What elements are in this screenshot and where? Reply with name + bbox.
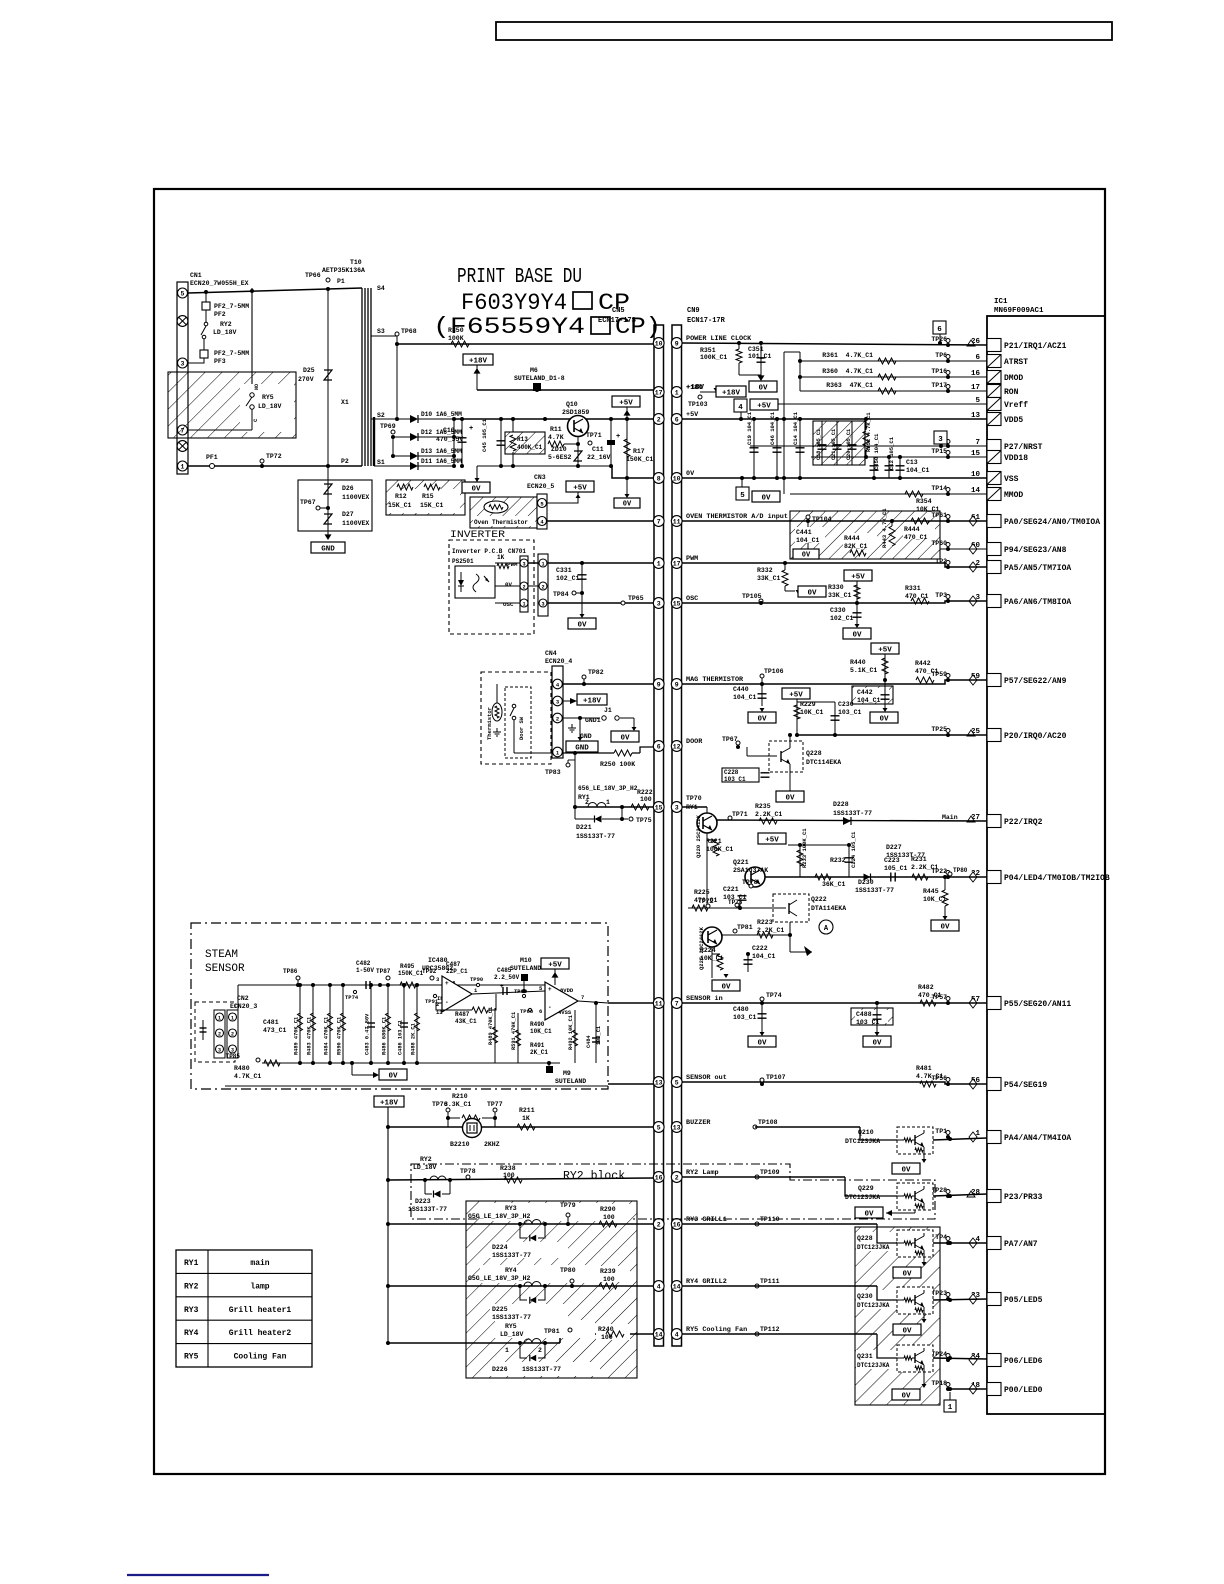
svg-text:R489 470K_C1: R489 470K_C1	[294, 1017, 300, 1055]
svg-text:3: 3	[522, 561, 525, 567]
svg-text:8VDD: 8VDD	[560, 987, 574, 994]
svg-text:6: 6	[539, 1008, 542, 1015]
svg-text:TP90: TP90	[470, 976, 483, 983]
svg-text:R290: R290	[600, 1206, 616, 1213]
svg-text:470_C1: 470_C1	[904, 534, 928, 541]
svg-text:+5V: +5V	[765, 836, 779, 844]
svg-text:TP88: TP88	[520, 1008, 534, 1015]
svg-text:R351: R351	[700, 347, 716, 354]
svg-text:0V: 0V	[807, 589, 817, 597]
svg-text:D26: D26	[342, 485, 354, 492]
svg-text:C21 105_C1: C21 105_C1	[831, 429, 837, 460]
svg-text:5: 5	[740, 492, 745, 500]
svg-text:C10: C10	[443, 427, 455, 434]
svg-text:VSS: VSS	[1004, 475, 1019, 484]
svg-text:+: +	[548, 986, 552, 993]
svg-text:470_C1: 470_C1	[905, 593, 929, 600]
svg-text:R482: R482	[918, 984, 934, 991]
svg-text:0V: 0V	[901, 1392, 911, 1400]
svg-text:R487: R487	[455, 1011, 470, 1018]
svg-text:C46 104_C1: C46 104_C1	[769, 411, 776, 445]
svg-text:R443 4.7K_C1: R443 4.7K_C1	[881, 508, 888, 548]
svg-text:RY4: RY4	[184, 1329, 199, 1338]
svg-text:R223: R223	[757, 919, 773, 926]
svg-text:104_C1: 104_C1	[906, 467, 930, 474]
svg-text:R495: R495	[400, 963, 415, 970]
svg-text:Q210: Q210	[858, 1129, 874, 1136]
svg-text:100K_C1: 100K_C1	[706, 846, 733, 853]
svg-text:Cooling Fan: Cooling Fan	[234, 1353, 287, 1362]
svg-text:8: 8	[657, 475, 661, 482]
svg-text:104_C1: 104_C1	[752, 953, 776, 960]
svg-text:SUTELAND: SUTELAND	[510, 965, 541, 972]
svg-text:270V: 270V	[298, 376, 314, 383]
svg-text:3: 3	[657, 600, 661, 607]
svg-text:+18V: +18V	[380, 1099, 399, 1107]
svg-text:RY3: RY3	[184, 1306, 199, 1315]
svg-text:-: -	[548, 1004, 552, 1011]
svg-text:R330: R330	[828, 584, 844, 591]
svg-text:C440: C440	[733, 686, 749, 693]
svg-text:TP15: TP15	[931, 448, 947, 455]
svg-text:DMOD: DMOD	[1004, 374, 1023, 383]
svg-text:RON: RON	[1004, 388, 1019, 397]
svg-text:DTC123JKA: DTC123JKA	[845, 1194, 880, 1201]
svg-text:TP86: TP86	[283, 968, 298, 975]
svg-text:0V: 0V	[872, 1039, 882, 1047]
svg-text:TP85: TP85	[226, 1053, 241, 1060]
svg-text:X1: X1	[341, 399, 349, 406]
svg-text:RY2: RY2	[184, 1282, 199, 1291]
svg-text:Vreff: Vreff	[1004, 401, 1028, 410]
svg-text:4VSS: 4VSS	[558, 1009, 572, 1016]
svg-text:ECN17-17S: ECN17-17S	[598, 317, 636, 325]
svg-text:P94/SEG23/AN8: P94/SEG23/AN8	[1004, 546, 1067, 555]
svg-text:RY3 GRILL1: RY3 GRILL1	[686, 1216, 727, 1224]
svg-text:TP78: TP78	[460, 1168, 476, 1175]
svg-text:150K_C1: 150K_C1	[398, 970, 424, 977]
svg-text:0V: 0V	[388, 1072, 398, 1080]
svg-text:R360 4.7K_C1: R360 4.7K_C1	[822, 368, 873, 375]
svg-text:D227: D227	[886, 844, 902, 851]
svg-text:0V: 0V	[864, 1210, 874, 1218]
svg-text:C20 105_C1: C20 105_C1	[846, 429, 852, 460]
svg-text:AETP35K136A: AETP35K136A	[322, 267, 365, 274]
svg-text:C488: C488	[856, 1011, 872, 1018]
svg-text:0V: 0V	[785, 794, 795, 802]
svg-text:10K_C1: 10K_C1	[700, 955, 724, 962]
svg-text:LD_18V: LD_18V	[500, 1331, 524, 1338]
svg-text:ZD10: ZD10	[551, 446, 567, 453]
svg-text:15K_C1: 15K_C1	[388, 502, 412, 509]
svg-text:DTA114EKA: DTA114EKA	[811, 905, 846, 912]
svg-text:R492 10K_C1: R492 10K_C1	[568, 1015, 574, 1050]
svg-text:6: 6	[675, 416, 679, 423]
svg-text:4: 4	[738, 404, 743, 412]
svg-text:1SS133T-77: 1SS133T-77	[492, 1314, 531, 1321]
svg-text:16: 16	[673, 1221, 681, 1228]
svg-text:P2: P2	[341, 458, 349, 465]
svg-text:TP105: TP105	[742, 593, 762, 600]
svg-text:B2210: B2210	[450, 1141, 470, 1148]
svg-text:C14 104_C1: C14 104_C1	[792, 411, 799, 445]
svg-text:100: 100	[603, 1214, 615, 1221]
svg-text:5: 5	[657, 1124, 661, 1131]
svg-text:+5V: +5V	[619, 399, 633, 407]
svg-text:C480: C480	[733, 1006, 749, 1013]
svg-text:SENSOR: SENSOR	[205, 963, 245, 975]
svg-text:473_C1: 473_C1	[263, 1027, 287, 1034]
svg-text:0V: 0V	[802, 551, 811, 559]
svg-text:0V: 0V	[757, 1039, 767, 1047]
svg-text:TP111: TP111	[760, 1278, 780, 1285]
svg-text:C221: C221	[723, 886, 739, 893]
svg-text:R238: R238	[500, 1165, 516, 1172]
svg-text:D223: D223	[415, 1198, 431, 1205]
svg-text:PA6/AN6/TM8IOA: PA6/AN6/TM8IOA	[1004, 598, 1071, 607]
svg-text:ECN20_5: ECN20_5	[527, 483, 554, 490]
svg-text:C13: C13	[906, 459, 918, 466]
svg-text:0V: 0V	[505, 581, 512, 588]
svg-text:9: 9	[675, 681, 679, 688]
svg-text:+18V: +18V	[686, 384, 705, 392]
svg-text:2: 2	[522, 584, 525, 590]
svg-text:1: 1	[231, 1015, 234, 1021]
svg-text:SUTELAND_D1-8: SUTELAND_D1-8	[514, 375, 565, 382]
svg-text:R354: R354	[916, 498, 932, 505]
svg-text:1: 1	[541, 561, 544, 567]
svg-text:D10 1A6_5MM: D10 1A6_5MM	[421, 411, 462, 418]
svg-text:R486 680K_C1: R486 680K_C1	[382, 1017, 388, 1055]
svg-text:TP68: TP68	[401, 328, 417, 335]
svg-text:Q230: Q230	[857, 1293, 873, 1300]
svg-text:C224 105_C1: C224 105_C1	[850, 831, 857, 868]
svg-text:ECN17-17R: ECN17-17R	[687, 317, 726, 325]
svg-text:100: 100	[603, 1276, 615, 1283]
svg-text:0V: 0V	[879, 715, 889, 723]
svg-text:PWM: PWM	[686, 555, 698, 563]
svg-text:INVERTER: INVERTER	[450, 529, 506, 541]
svg-text:T10: T10	[350, 259, 362, 266]
svg-text:IC480: IC480	[428, 957, 448, 964]
svg-text:103_C1: 103_C1	[856, 1019, 880, 1026]
svg-text:150K_C1: 150K_C1	[626, 456, 653, 463]
svg-text:Door SW: Door SW	[518, 716, 525, 740]
svg-text:C19 104_C1: C19 104_C1	[746, 411, 753, 445]
svg-text:C11: C11	[592, 446, 604, 453]
svg-text:GND1: GND1	[585, 717, 601, 724]
svg-text:P21/IRQ1/ACZ1: P21/IRQ1/ACZ1	[1004, 342, 1067, 351]
svg-text:DTC123JKA: DTC123JKA	[845, 1138, 880, 1145]
svg-text:103_C1: 103_C1	[838, 709, 862, 716]
svg-text:D225: D225	[492, 1306, 508, 1313]
svg-text:STEAM: STEAM	[205, 949, 238, 961]
svg-text:S4: S4	[377, 285, 385, 292]
svg-text:C441: C441	[796, 529, 812, 536]
svg-text:D12 1A6_5MM: D12 1A6_5MM	[421, 429, 462, 436]
svg-text:G5G_LE_18V_3P_H2: G5G_LE_18V_3P_H2	[468, 1213, 531, 1220]
svg-text:2: 2	[218, 1031, 221, 1037]
svg-text:P22/IRQ2: P22/IRQ2	[1004, 818, 1043, 827]
svg-text:1SS133T-77: 1SS133T-77	[576, 833, 615, 840]
svg-text:TP67: TP67	[722, 736, 738, 743]
svg-text:R490: R490	[530, 1021, 545, 1028]
svg-text:TP110: TP110	[760, 1216, 780, 1223]
svg-text:S3: S3	[377, 328, 385, 335]
svg-text:1SS133T-77: 1SS133T-77	[855, 887, 894, 894]
svg-text:R590 470K_C1: R590 470K_C1	[337, 1017, 343, 1055]
svg-text:G5G_LE_18V_3P_H2: G5G_LE_18V_3P_H2	[468, 1275, 531, 1282]
svg-text:-: -	[445, 999, 449, 1006]
svg-text:RY4 GRILL2: RY4 GRILL2	[686, 1278, 727, 1286]
svg-text:TP3: TP3	[935, 592, 947, 599]
svg-text:1SS133T-77: 1SS133T-77	[833, 810, 872, 817]
svg-text:P54/SEG19: P54/SEG19	[1004, 1081, 1047, 1090]
svg-text:+5V: +5V	[757, 402, 771, 410]
svg-text:R480: R480	[234, 1065, 250, 1072]
svg-text:R13: R13	[517, 436, 528, 443]
svg-text:15: 15	[673, 600, 681, 607]
svg-text:M6: M6	[530, 367, 538, 374]
svg-text:0V: 0V	[721, 983, 731, 991]
svg-text:R442: R442	[915, 660, 931, 667]
svg-text:100K: 100K	[448, 335, 464, 342]
svg-text:PF2: PF2	[214, 311, 226, 318]
svg-text:TP70: TP70	[686, 795, 702, 802]
svg-text:5: 5	[181, 290, 185, 297]
svg-text:GND: GND	[321, 545, 335, 553]
svg-text:S1: S1	[377, 459, 385, 466]
svg-text:PA4/AN4/TM4IOA: PA4/AN4/TM4IOA	[1004, 1134, 1071, 1143]
svg-text:+5V: +5V	[548, 961, 562, 969]
svg-text:VDD5: VDD5	[1004, 416, 1023, 425]
svg-text:104_C1: 104_C1	[796, 537, 820, 544]
svg-text:UPC358G2: UPC358G2	[422, 965, 453, 972]
svg-text:Q229: Q229	[858, 1185, 874, 1192]
svg-text:470_C1: 470_C1	[694, 897, 718, 904]
svg-text:3: 3	[541, 601, 544, 607]
svg-text:R350: R350	[448, 327, 464, 334]
svg-text:C331: C331	[556, 567, 572, 574]
svg-text:16: 16	[655, 1174, 663, 1181]
svg-text:TP83: TP83	[545, 769, 561, 776]
svg-text:RY2 Lamp: RY2 Lamp	[686, 1169, 719, 1177]
svg-text:10: 10	[673, 475, 681, 482]
svg-text:D221: D221	[576, 824, 592, 831]
svg-text:R444: R444	[844, 535, 860, 542]
svg-text:10: 10	[655, 340, 663, 347]
svg-text:R12: R12	[395, 493, 407, 500]
svg-text:TP87: TP87	[376, 968, 391, 975]
svg-text:15K_C1: 15K_C1	[420, 502, 444, 509]
svg-text:1: 1	[657, 560, 661, 567]
svg-text:CN2: CN2	[237, 995, 249, 1002]
svg-text:Grill heater1: Grill heater1	[229, 1306, 292, 1315]
svg-text:main: main	[250, 1259, 269, 1268]
svg-text:P00/LED0: P00/LED0	[1004, 1386, 1043, 1395]
svg-text:1: 1	[606, 799, 610, 806]
svg-text:10K_C1: 10K_C1	[800, 709, 824, 716]
svg-text:2.2K_C1: 2.2K_C1	[911, 864, 938, 871]
svg-text:P57/SEG22/AN9: P57/SEG22/AN9	[1004, 677, 1067, 686]
svg-text:11: 11	[655, 1000, 663, 1007]
svg-text:3: 3	[938, 436, 943, 444]
svg-text:1SS133T-77: 1SS133T-77	[408, 1206, 447, 1213]
svg-text:1: 1	[948, 1404, 953, 1412]
svg-text:C18 105_C1: C18 105_C1	[816, 429, 822, 460]
svg-text:2.2_50V: 2.2_50V	[494, 974, 520, 981]
svg-text:PF2_7-5MM: PF2_7-5MM	[214, 350, 249, 357]
svg-text:6: 6	[937, 326, 942, 334]
svg-text:1: 1	[522, 601, 525, 607]
svg-text:0V: 0V	[902, 1270, 912, 1278]
svg-text:C330: C330	[830, 607, 846, 614]
svg-text:7: 7	[581, 994, 584, 1001]
svg-text:R210: R210	[452, 1093, 468, 1100]
svg-text:PF2_7-5MM: PF2_7-5MM	[214, 303, 249, 310]
svg-text:TP71: TP71	[732, 811, 748, 818]
svg-text:Q231: Q231	[857, 1353, 873, 1360]
svg-text:82K_C1: 82K_C1	[844, 543, 868, 550]
svg-text:D11 1A6_5MM: D11 1A6_5MM	[421, 458, 462, 465]
svg-text:1: 1	[675, 389, 679, 396]
svg-text:Q220 2SC2412K: Q220 2SC2412K	[695, 814, 702, 858]
svg-text:CN5: CN5	[612, 307, 625, 315]
svg-text:C482: C482	[356, 960, 371, 967]
svg-text:CN701: CN701	[508, 548, 526, 555]
svg-text:TP71: TP71	[586, 432, 602, 439]
svg-text:1K: 1K	[522, 1115, 530, 1122]
svg-text:TP81: TP81	[544, 1328, 560, 1335]
svg-text:R239: R239	[600, 1268, 616, 1275]
svg-text:LD_18V: LD_18V	[213, 329, 237, 336]
svg-text:ECN20_7W055H_EX: ECN20_7W055H_EX	[190, 280, 249, 287]
svg-text:3.3K_C1: 3.3K_C1	[444, 1101, 471, 1108]
svg-text:D25: D25	[303, 367, 315, 374]
svg-text:33K_C1: 33K_C1	[757, 575, 781, 582]
svg-text:R363 47K_C1: R363 47K_C1	[826, 382, 873, 389]
svg-text:P05/LED5: P05/LED5	[1004, 1296, 1043, 1305]
svg-text:Main: Main	[942, 814, 958, 821]
svg-text:+18V: +18V	[469, 357, 488, 365]
svg-text:470_C1: 470_C1	[918, 992, 942, 999]
svg-text:+5V: +5V	[789, 691, 803, 699]
svg-text:R17: R17	[633, 448, 645, 455]
svg-text:0V: 0V	[761, 494, 771, 502]
svg-text:P27/NRST: P27/NRST	[1004, 443, 1043, 452]
svg-text:1100VEX: 1100VEX	[342, 520, 369, 527]
svg-text:DOOR: DOOR	[686, 738, 703, 746]
svg-text:Q228: Q228	[806, 750, 822, 757]
svg-text:OSC: OSC	[503, 601, 514, 608]
svg-text:P23/PR33: P23/PR33	[1004, 1193, 1043, 1202]
svg-text:2: 2	[538, 1347, 542, 1354]
svg-text:Q228: Q228	[857, 1235, 873, 1242]
svg-text:0V: 0V	[940, 923, 950, 931]
svg-text:4.7K_C1: 4.7K_C1	[916, 1073, 943, 1080]
svg-text:M10: M10	[520, 957, 532, 964]
svg-text:RY5 Cooling Fan: RY5 Cooling Fan	[686, 1326, 747, 1334]
svg-text:J1: J1	[604, 707, 612, 714]
svg-text:TP108: TP108	[758, 1119, 778, 1126]
svg-text:POWER LINE CLOCK: POWER LINE CLOCK	[686, 335, 752, 343]
svg-text:5-6ES2: 5-6ES2	[548, 454, 572, 461]
svg-text:R483 470K_C1: R483 470K_C1	[307, 1017, 313, 1055]
svg-text:Q10: Q10	[566, 401, 578, 408]
svg-text:5.1K_C1: 5.1K_C1	[850, 667, 877, 674]
svg-text:PS2501: PS2501	[452, 558, 474, 565]
svg-text:R445: R445	[923, 888, 939, 895]
svg-text:BUZZER: BUZZER	[686, 1119, 711, 1127]
svg-text:C45 105_C1: C45 105_C1	[481, 418, 488, 452]
svg-text:+5V: +5V	[573, 484, 587, 492]
svg-text:22_16V: 22_16V	[587, 454, 611, 461]
svg-text:TP25: TP25	[931, 726, 947, 733]
svg-text:4.7K: 4.7K	[548, 434, 564, 441]
svg-text:D13 1A6_5MM: D13 1A6_5MM	[421, 448, 462, 455]
svg-text:100: 100	[640, 796, 652, 803]
svg-text:R332: R332	[757, 567, 773, 574]
svg-text:OVEN THERMISTOR A/D input: OVEN THERMISTOR A/D input	[686, 513, 788, 521]
svg-text:DTC123JKA: DTC123JKA	[857, 1362, 890, 1369]
svg-text:4.7K_C1: 4.7K_C1	[234, 1073, 261, 1080]
svg-text:1SS133T-77: 1SS133T-77	[492, 1252, 531, 1259]
svg-text:17: 17	[673, 560, 681, 567]
svg-text:10K_C1: 10K_C1	[530, 1028, 552, 1035]
svg-text:17: 17	[655, 389, 663, 396]
svg-text:R221: R221	[706, 838, 722, 845]
svg-text:1-50V: 1-50V	[356, 967, 374, 974]
svg-text:1SS133T-77: 1SS133T-77	[886, 852, 925, 859]
svg-text:TP16: TP16	[931, 368, 947, 375]
svg-text:0V: 0V	[471, 485, 481, 493]
svg-text:0V: 0V	[852, 631, 862, 639]
svg-text:R15: R15	[422, 493, 434, 500]
svg-text:+: +	[500, 983, 504, 990]
svg-text:105_C1: 105_C1	[884, 865, 908, 872]
svg-text:+: +	[469, 425, 473, 433]
svg-text:RY5: RY5	[184, 1353, 199, 1362]
svg-text:0V: 0V	[623, 500, 632, 508]
svg-text:P06/LED6: P06/LED6	[1004, 1357, 1043, 1366]
svg-text:GND: GND	[575, 744, 589, 752]
svg-text:RY5: RY5	[505, 1323, 517, 1330]
svg-text:TP89: TP89	[514, 988, 527, 995]
svg-text:R444: R444	[904, 526, 920, 533]
svg-text:R11: R11	[550, 426, 562, 433]
svg-text:7: 7	[675, 1000, 679, 1007]
svg-text:CN3: CN3	[534, 474, 546, 481]
svg-text:14: 14	[673, 1283, 681, 1290]
svg-text:2: 2	[541, 584, 544, 590]
svg-text:9: 9	[675, 340, 679, 347]
svg-text:PA5/AN5/TM7IOA: PA5/AN5/TM7IOA	[1004, 564, 1071, 573]
svg-text:+18V: +18V	[722, 389, 741, 397]
svg-text:Inverter P.C.B: Inverter P.C.B	[452, 548, 503, 555]
svg-text:C228: C228	[724, 769, 739, 776]
svg-text:PRINT BASE DU: PRINT BASE DU	[457, 266, 582, 289]
svg-text:12: 12	[673, 743, 681, 750]
svg-text:7: 7	[657, 518, 661, 525]
svg-text:104_C1: 104_C1	[857, 697, 881, 704]
svg-text:0V: 0V	[758, 384, 768, 392]
svg-text:P55/SEG20/AN11: P55/SEG20/AN11	[1004, 1000, 1071, 1009]
svg-text:IC1: IC1	[994, 298, 1008, 306]
svg-text:C230: C230	[838, 701, 854, 708]
svg-text:4: 4	[657, 1283, 661, 1290]
svg-text:TP72: TP72	[266, 453, 282, 460]
svg-text:TP81: TP81	[737, 924, 753, 931]
